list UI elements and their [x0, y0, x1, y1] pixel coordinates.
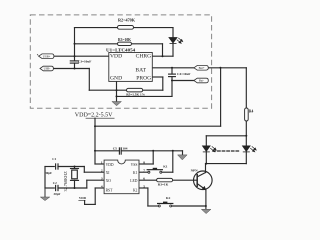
svg-text:C2: C2 — [53, 181, 57, 185]
svg-text:R5=1.5K 1%: R5=1.5K 1% — [126, 92, 145, 96]
svg-text:104: 104 — [122, 147, 127, 151]
svg-text:4: 4 — [101, 184, 103, 188]
svg-text:GND: GND — [110, 75, 122, 81]
svg-text:K2: K2 — [133, 189, 138, 193]
svg-text:K1: K1 — [163, 164, 168, 168]
svg-text:C1: C1 — [52, 157, 56, 161]
svg-text:Bat-: Bat- — [199, 79, 204, 83]
svg-text:8: 8 — [143, 160, 145, 164]
svg-text:5: 5 — [143, 184, 145, 188]
svg-text:R2=470K: R2=470K — [118, 18, 136, 23]
svg-text:VSS: VSS — [131, 163, 138, 167]
svg-text:7: 7 — [143, 169, 145, 173]
svg-text:CHRG: CHRG — [136, 54, 152, 60]
svg-text:NPN: NPN — [191, 168, 199, 172]
svg-text:30pF: 30pF — [45, 171, 52, 175]
svg-text:1: 1 — [101, 160, 103, 164]
svg-text:R3=1K: R3=1K — [158, 183, 169, 187]
svg-text:VDD: VDD — [110, 54, 122, 60]
svg-text:BAT: BAT — [135, 67, 146, 73]
svg-text:VDD: VDD — [106, 163, 114, 167]
svg-text:USB+: USB+ — [43, 54, 51, 58]
svg-text:32.768KHZ: 32.768KHZ — [63, 171, 68, 192]
svg-text:Bat+: Bat+ — [199, 66, 205, 70]
svg-text:C3=10uF: C3=10uF — [78, 60, 91, 64]
svg-text:U1=LTC4054: U1=LTC4054 — [106, 48, 135, 53]
svg-text:XO: XO — [106, 179, 112, 183]
svg-text:C4=10uF: C4=10uF — [177, 72, 190, 76]
svg-text:3: 3 — [101, 177, 103, 181]
svg-text:PROG: PROG — [136, 75, 151, 81]
svg-text:RST: RST — [106, 189, 114, 193]
svg-text:K2: K2 — [166, 196, 171, 200]
svg-text:VDD=2.2-5.5V: VDD=2.2-5.5V — [75, 112, 113, 118]
svg-text:USB-: USB- — [44, 67, 51, 71]
svg-text:C5: C5 — [113, 147, 117, 151]
svg-text:R3=10K: R3=10K — [118, 37, 132, 42]
svg-text:30pF: 30pF — [54, 192, 61, 196]
svg-text:2: 2 — [101, 169, 103, 173]
svg-text:R4: R4 — [249, 109, 254, 113]
svg-text:K1: K1 — [133, 171, 138, 175]
svg-text:6: 6 — [143, 177, 145, 181]
svg-text:LED: LED — [130, 179, 138, 183]
svg-text:VDD: VDD — [79, 196, 87, 200]
